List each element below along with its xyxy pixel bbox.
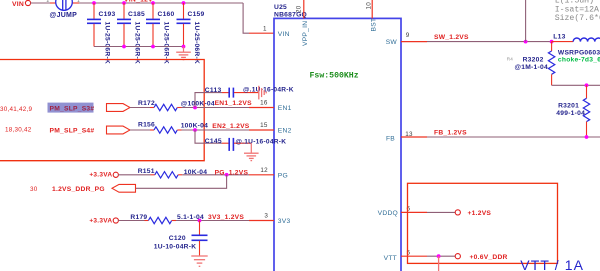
resistor R179 <box>130 214 204 224</box>
svg-text:+3.3VA: +3.3VA <box>89 172 112 179</box>
svg-text:EN1_1.2VS: EN1_1.2VS <box>215 100 252 107</box>
svg-text:C193: C193 <box>99 11 116 18</box>
pin 15 EN2 <box>260 122 291 134</box>
jumper @JUMP <box>47 0 81 19</box>
svg-text:FB_1.2VS: FB_1.2VS <box>434 129 467 136</box>
wire <box>182 174 249 176</box>
wire <box>427 255 455 257</box>
capacitor C113 <box>205 86 294 97</box>
wire <box>552 84 600 86</box>
wire pin 9 stub <box>401 41 427 43</box>
svg-text:@.1U-16-04R-K: @.1U-16-04R-K <box>243 86 294 93</box>
svg-text:C159: C159 <box>188 11 205 18</box>
wire <box>30 2 50 4</box>
svg-text:I-sat=12A: I-sat=12A <box>555 5 599 14</box>
terminal +0.6V_DDR <box>455 254 507 261</box>
wire <box>136 175 227 189</box>
pin 16 EN1 <box>260 100 291 113</box>
pin 13 FB <box>386 131 413 142</box>
svg-text:1.2VS_DDR_PG: 1.2VS_DDR_PG <box>52 186 105 193</box>
svg-text:choke-7d3_6d2: choke-7d3_6d2 <box>558 56 600 63</box>
svg-text:10: 10 <box>365 2 372 10</box>
terminal VIN <box>12 0 31 8</box>
svg-text:@1M-1-04: @1M-1-04 <box>515 64 548 71</box>
wire pin 1 stub <box>249 32 274 34</box>
svg-text:16: 16 <box>260 100 268 107</box>
svg-text:18,30,42: 18,30,42 <box>5 127 32 134</box>
pin 1 VIN <box>263 25 290 38</box>
junction <box>225 173 229 177</box>
svg-text:C120: C120 <box>169 235 186 242</box>
svg-text:1U-10-04R-K: 1U-10-04R-K <box>154 244 197 251</box>
junction <box>182 1 186 5</box>
resistor R3202 <box>515 42 555 86</box>
pin 6 VDDQ <box>378 205 411 217</box>
junction <box>182 45 186 49</box>
svg-text:1U-25-06R-K: 1U-25-06R-K <box>193 22 200 65</box>
annotation box <box>0 60 204 161</box>
svg-text:C145: C145 <box>205 138 222 145</box>
wire pin 3 stub <box>249 220 274 222</box>
junction <box>122 45 126 49</box>
svg-text:R179: R179 <box>130 214 147 221</box>
capacitor C185 <box>117 3 145 64</box>
wire <box>94 46 184 48</box>
wire pin 13 stub <box>401 136 427 138</box>
svg-text:+3.3VA: +3.3VA <box>89 217 112 224</box>
junction <box>151 1 155 5</box>
svg-text:R151: R151 <box>138 168 155 175</box>
svg-text:PM_SLP_S4#: PM_SLP_S4# <box>50 127 95 134</box>
svg-text:Fsw:500KHz: Fsw:500KHz <box>310 71 359 80</box>
ground <box>244 143 259 160</box>
svg-text:3: 3 <box>264 213 268 220</box>
svg-text:R4: R4 <box>507 56 514 61</box>
wire pin 12 stub <box>249 174 274 176</box>
svg-text:3V3: 3V3 <box>278 218 291 225</box>
off-page connector <box>107 104 131 112</box>
svg-text:R156: R156 <box>138 122 155 129</box>
svg-text:1U-25-06R-K: 1U-25-06R-K <box>134 22 141 65</box>
wire <box>118 220 144 222</box>
capacitor C145 <box>205 138 286 151</box>
wire SW net <box>427 41 552 43</box>
svg-text:EN2: EN2 <box>278 128 292 135</box>
net name PM_SLP_S3# (highlighted) <box>48 103 95 113</box>
svg-text:9: 9 <box>406 32 410 39</box>
power stub (clipped) <box>438 256 440 271</box>
note inductor specs <box>555 0 600 23</box>
annotation box <box>408 183 558 263</box>
wire <box>118 174 150 176</box>
svg-text:C113: C113 <box>205 87 222 94</box>
resistor R172 <box>138 100 215 111</box>
resistor R3201 <box>556 85 589 137</box>
svg-text:Size(7.6*6.6): Size(7.6*6.6) <box>555 13 600 23</box>
terminal +3.3VA <box>89 172 118 179</box>
svg-text:2: 2 <box>47 0 50 4</box>
wire <box>525 0 527 42</box>
wire <box>130 129 150 131</box>
svg-text:PG_1.2VS: PG_1.2VS <box>215 169 249 176</box>
wire pin 15 stub <box>249 129 274 131</box>
svg-text:1U-25-06R-K: 1U-25-06R-K <box>163 22 170 65</box>
junction <box>151 45 155 49</box>
junction <box>122 1 126 5</box>
wire <box>182 129 250 131</box>
resistor R156 <box>138 122 208 134</box>
terminal +3.3VA <box>89 217 118 224</box>
wire pin 5 stub <box>401 255 427 257</box>
svg-text:VTT / 1A: VTT / 1A <box>520 257 584 271</box>
capacitor C160 <box>146 3 175 64</box>
wire <box>130 107 150 109</box>
capacitor C159 <box>177 3 205 64</box>
pin 5 VTT <box>384 249 411 261</box>
ground (rotated) <box>259 86 266 100</box>
svg-text:15: 15 <box>260 122 268 129</box>
svg-text:EN1: EN1 <box>278 105 292 112</box>
svg-text:+0.6V_DDR: +0.6V_DDR <box>470 254 508 261</box>
svg-text:BST: BST <box>371 18 378 32</box>
junction <box>524 40 528 44</box>
pin 9 SW <box>386 32 410 46</box>
wire <box>182 107 250 109</box>
wire FB net <box>427 136 600 138</box>
ground <box>191 256 207 266</box>
svg-text:VIN: VIN <box>12 1 24 8</box>
junction <box>193 106 197 110</box>
svg-text:VDDQ: VDDQ <box>378 210 398 217</box>
svg-text:1U-25-06R-K: 1U-25-06R-K <box>104 22 111 65</box>
junction <box>550 40 554 44</box>
svg-text:R3201: R3201 <box>558 102 579 109</box>
wire <box>427 211 455 213</box>
svg-text:,30,41,42,9: ,30,41,42,9 <box>0 106 33 113</box>
off-page connector <box>107 126 131 134</box>
resistor R151 <box>138 168 208 178</box>
svg-text:3V3_1.2VS: 3V3_1.2VS <box>208 214 244 221</box>
pin 10 BST <box>365 0 377 32</box>
junction <box>198 219 202 223</box>
svg-text:SW: SW <box>386 39 398 46</box>
wire <box>195 130 222 143</box>
svg-text:@JUMP: @JUMP <box>50 12 78 19</box>
wire <box>243 3 249 33</box>
svg-text:499-1-04: 499-1-04 <box>556 110 585 117</box>
svg-text:C160: C160 <box>158 11 175 18</box>
svg-text:VPP_IN: VPP_IN <box>302 21 309 46</box>
wire <box>195 93 222 108</box>
svg-text:VIN: VIN <box>278 31 290 38</box>
svg-text:L13: L13 <box>553 33 565 40</box>
svg-text:@.1U-16-04R-K: @.1U-16-04R-K <box>236 138 287 145</box>
svg-text:12: 12 <box>260 167 268 174</box>
capacitor C120 <box>154 221 208 256</box>
pin 20 VPP_IN <box>296 0 309 46</box>
capacitor C193 <box>87 3 116 64</box>
IC U25 NB687GQ <box>274 4 401 271</box>
inductor L13 <box>552 33 600 63</box>
svg-text:PM_SLP_S3#: PM_SLP_S3# <box>50 106 95 113</box>
off-page connector (left) <box>112 184 136 192</box>
wire pin 6 stub <box>401 211 427 213</box>
junction <box>585 83 589 87</box>
svg-text:@100K-04: @100K-04 <box>181 100 215 107</box>
terminal +1.2VS <box>455 210 491 217</box>
pin 12 PG <box>260 167 288 179</box>
junction <box>437 254 441 258</box>
svg-text:R3202: R3202 <box>523 56 544 63</box>
svg-text:+1.2VS: +1.2VS <box>468 210 492 217</box>
wire pin 16 stub <box>249 107 274 109</box>
svg-text:1: 1 <box>263 25 267 32</box>
svg-text:30: 30 <box>30 186 38 193</box>
junction <box>193 128 197 132</box>
svg-text:R172: R172 <box>138 100 155 107</box>
pin 3 3V3 <box>264 213 290 226</box>
wire <box>79 2 243 4</box>
svg-text:U25: U25 <box>274 4 287 11</box>
svg-text:SW_1.2VS: SW_1.2VS <box>434 34 469 41</box>
svg-text:C185: C185 <box>128 11 145 18</box>
svg-text:20: 20 <box>296 5 303 13</box>
svg-text:FB: FB <box>386 135 395 142</box>
svg-text:PG: PG <box>278 173 288 180</box>
ground <box>176 47 191 60</box>
wire <box>176 220 249 222</box>
junction <box>92 1 96 5</box>
svg-text:EN2_1.2VS: EN2_1.2VS <box>212 123 249 130</box>
junction <box>585 135 589 139</box>
svg-text:VTT: VTT <box>384 255 397 262</box>
